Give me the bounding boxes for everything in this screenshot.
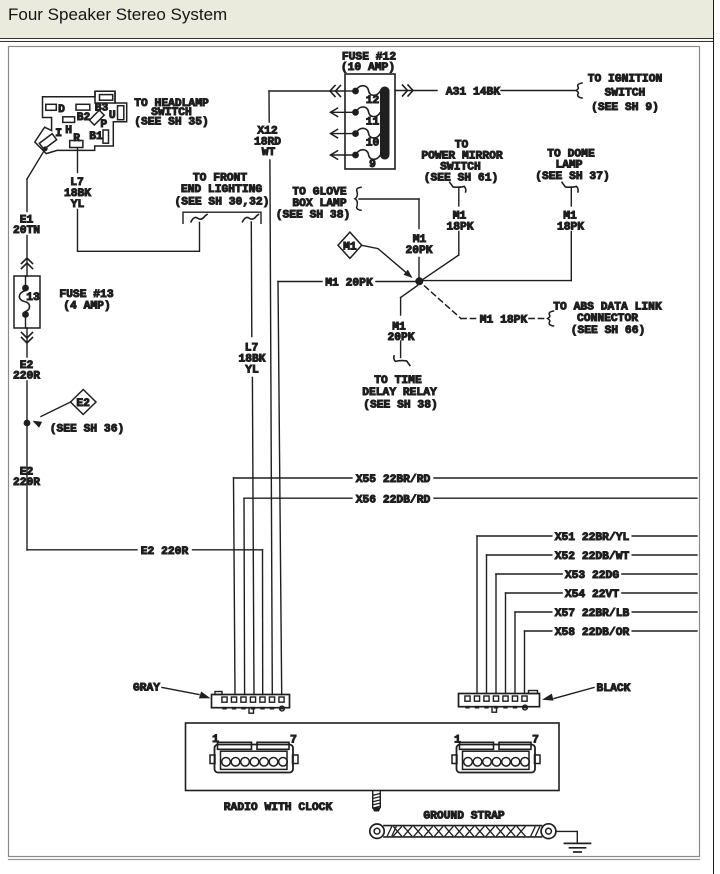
label GRAY [133,683,160,695]
wire M1 20PK horizontal + vertical to gray connector [278,282,419,695]
svg-text:18PK: 18PK [557,221,584,233]
radio plug left pin labels 1 7 [212,734,297,747]
label E2 220R (lower) [13,467,40,490]
pin U [109,106,124,123]
pin D [46,104,65,116]
svg-text:(SEE SH 37): (SEE SH 37) [535,171,610,183]
svg-text:M1 18PK: M1 18PK [480,315,528,327]
pin H [63,117,75,137]
svg-text:X53 22DG: X53 22DG [565,570,619,582]
radio plug right pin labels 1 7 [454,735,539,747]
fuse element pin 11 [331,107,381,128]
svg-text:12: 12 [366,95,380,107]
header bar [0,0,713,38]
svg-text:(4 AMP): (4 AMP) [63,301,110,313]
svg-text:X55 22BR/RD: X55 22BR/RD [356,474,431,486]
wire X56 22DB/RD [244,498,697,694]
label E1 20TN [13,215,40,237]
arrow from M1 diamond to junction [362,245,413,278]
dashed wire M1 18PK to ABS data link [425,286,554,326]
wire X12: fuse 12 to down bundle, out-arrows [269,86,345,97]
label L7 18BK YL (bundle) [238,343,265,377]
mounting screw [372,792,380,812]
wire X55 22BR/RD [234,478,698,695]
label M1 20PK (glove) [405,234,432,257]
svg-text:TO GLOVE: TO GLOVE [292,187,346,199]
wire E2 220R horizontal to gray connector [27,550,263,695]
svg-text:POWER MIRROR: POWER MIRROR [421,151,503,163]
svg-text:7: 7 [532,735,539,747]
svg-text:20PK: 20PK [387,332,414,344]
svg-text:220R: 220R [13,371,40,383]
svg-text:10: 10 [366,138,380,150]
svg-text:TO FRONT: TO FRONT [193,173,247,185]
splice diamond E2 [71,390,97,415]
svg-text:M1: M1 [343,242,357,254]
svg-text:(SEE SH 38): (SEE SH 38) [276,210,351,222]
page right border line [713,0,715,874]
wire A31 14BK to ignition switch [395,83,582,98]
label X54 22VT [565,589,619,601]
wire to ground [556,831,577,842]
svg-text:TO IGNITION: TO IGNITION [588,74,663,86]
svg-text:DELAY RELAY: DELAY RELAY [362,387,437,399]
svg-text:(SEE SH 38): (SEE SH 38) [363,400,438,412]
label X58 22DB/OR [555,627,630,639]
svg-text:L7: L7 [70,177,84,189]
svg-text:L7: L7 [245,343,259,355]
svg-text:END LIGHTING: END LIGHTING [181,184,263,196]
label TO ABS DATA LINK CONNECTOR (SEE SH 66) [553,302,662,337]
label X57 22BR/LB [555,608,630,620]
svg-text:(SEE SH 36): (SEE SH 36) [50,424,125,436]
svg-text:I: I [55,128,62,140]
label TO POWER MIRROR SWITCH (SEE SH 61) [421,140,503,185]
wire E1 (upper) [26,179,28,276]
arrow from E2 diamond to junction [33,402,71,428]
svg-text:WT: WT [262,147,276,159]
label M1 20PK (horizontal) [325,278,373,290]
junction node M1 [415,277,423,285]
pin B1 [89,130,108,143]
svg-text:TO TIME: TO TIME [374,375,422,387]
svg-text:GROUND STRAP: GROUND STRAP [423,811,505,823]
label TO IGNITION SWITCH (SEE SH 9) [588,74,663,115]
label M1 18PK (dome) [557,211,584,234]
wire X51 22BR/YL [477,536,697,694]
svg-text:YL: YL [245,365,259,377]
label TO TIME DELAY RELAY (SEE SH 38) [362,375,438,411]
fuse F12 bus bar [380,87,390,160]
radio plug right [452,742,540,772]
pin R [70,133,83,148]
label BLACK [597,683,631,695]
svg-text:(SEE SH 35): (SEE SH 35) [134,117,209,129]
wire power mirror to junction [421,182,466,281]
label A31 14BK [446,87,500,99]
svg-text:BLACK: BLACK [597,683,631,695]
pin B3 [95,95,113,115]
label E2 220R (upper) [13,360,40,383]
svg-text:CONNECTOR: CONNECTOR [577,313,638,325]
svg-text:FUSE #13: FUSE #13 [59,289,113,301]
svg-text:18PK: 18PK [446,221,473,233]
wire E2 (middle) [26,328,28,550]
svg-text:R: R [73,133,80,145]
label X53 22DG [565,570,619,582]
arrow GRAY [162,688,211,699]
wire X54 22VT [506,593,698,694]
wire X53 22DG [496,574,697,694]
fuse element pin 9 [331,150,381,171]
fuse element pin 10 [331,128,381,149]
wire X52 22DB/WT [487,555,698,694]
fuse block F12 box [345,74,395,169]
label X52 22DB/WT [555,551,630,563]
header double rule [0,38,713,40]
svg-text:220R: 220R [13,477,40,489]
svg-text:BOX LAMP: BOX LAMP [292,198,346,210]
wire L7 from pin R to bracket [78,148,200,251]
svg-text:A31 14BK: A31 14BK [446,87,500,99]
svg-text:20TN: 20TN [13,225,40,237]
wire L7 to gray connector [251,222,254,695]
label (SEE SH 36) [50,424,125,436]
label FUSE #12 (10 AMP) [341,52,396,74]
svg-text:(SEE SH 61): (SEE SH 61) [424,173,499,185]
wire to time delay relay [394,286,418,366]
label E2 220R (horizontal) [141,546,189,558]
splice diamond M1 [338,232,362,258]
svg-text:TO ABS DATA LINK: TO ABS DATA LINK [553,302,662,314]
svg-text:SWITCH: SWITCH [605,88,646,100]
svg-text:11: 11 [366,116,380,128]
wire X12 vertical [269,91,272,695]
svg-text:LAMP: LAMP [555,160,582,172]
svg-text:U: U [109,110,116,122]
svg-text:1: 1 [454,735,461,747]
wire X58 22DB/OR [525,631,698,694]
wire: pin I to E1 [27,146,48,179]
wire glove box lamp to junction M1 [355,187,419,278]
svg-text:X51 22BR/YL: X51 22BR/YL [555,532,630,544]
label L7 18BK YL (left) [64,177,91,211]
svg-text:M1 20PK: M1 20PK [325,278,373,290]
break symbol above fuse 13 [22,258,33,269]
label X12 18RD WT [254,126,281,160]
svg-text:RADIO WITH CLOCK: RADIO WITH CLOCK [224,802,333,814]
label TO GLOVE BOX LAMP (SEE SH 38) [276,187,351,222]
svg-text:H: H [65,125,72,137]
svg-text:X57 22BR/LB: X57 22BR/LB [555,608,630,620]
label X51 22BR/YL [555,532,630,544]
pin P [89,110,107,131]
label M1 18PK (ABS, dashed) [480,315,528,327]
svg-text:(SEE SH 9): (SEE SH 9) [591,102,659,114]
fuse element pin 12 [345,86,380,107]
connector: headlamp switch body [35,91,127,153]
label GROUND STRAP [423,811,505,823]
label TO HEADLAMP SWITCH (SEE SH 35) [134,98,209,129]
connector C1 GRAY (radio) [212,692,290,714]
label X55 22BR/RD [356,474,431,486]
svg-text:B1: B1 [89,131,103,143]
svg-text:7: 7 [290,735,297,747]
label M1 20PK (time delay) [387,322,414,345]
ground symbol [565,843,591,852]
svg-text:13: 13 [26,292,40,304]
connector C2 BLACK (radio) [459,691,540,713]
svg-text:B2: B2 [77,112,91,124]
svg-text:(10 AMP): (10 AMP) [341,62,395,74]
svg-text:D: D [58,104,65,116]
wire X57 22BR/LB [515,612,697,694]
svg-text:X56 22DB/RD: X56 22DB/RD [356,494,431,506]
svg-text:(SEE SH 66): (SEE SH 66) [571,325,646,337]
svg-text:GRAY: GRAY [133,683,160,695]
svg-text:20PK: 20PK [405,245,432,257]
radio box [186,723,560,791]
ground strap [370,824,556,839]
svg-text:1: 1 [212,734,219,746]
front end lighting bracket [183,212,261,223]
label M1 18PK (power mirror) [446,211,473,234]
svg-text:(SEE SH 30,32): (SEE SH 30,32) [175,197,270,209]
label X56 22DB/RD [356,494,431,506]
svg-text:E2 220R: E2 220R [141,546,189,558]
arrow BLACK [542,688,594,701]
label FUSE #13 (4 AMP) [59,289,113,313]
svg-text:X58 22DB/OR: X58 22DB/OR [555,627,630,639]
label RADIO WITH CLOCK [224,802,333,814]
label TO DOME LAMP (SEE SH 37) [535,149,610,183]
svg-text:X52 22DB/WT: X52 22DB/WT [555,551,630,563]
svg-text:X54 22VT: X54 22VT [565,589,619,601]
junction on E2 wire [24,420,31,427]
pin I [39,128,62,150]
svg-text:E2: E2 [76,398,90,410]
pin B2 [76,104,90,124]
fuse F13 [14,276,40,328]
svg-text:9: 9 [369,159,376,171]
break symbol below fuse 13 [22,333,33,344]
label TO FRONT END LIGHTING (SEE SH 30,32) [175,173,270,209]
wire dome lamp to junction [421,182,578,280]
svg-text:YL: YL [71,199,85,211]
radio plug left [210,742,298,772]
